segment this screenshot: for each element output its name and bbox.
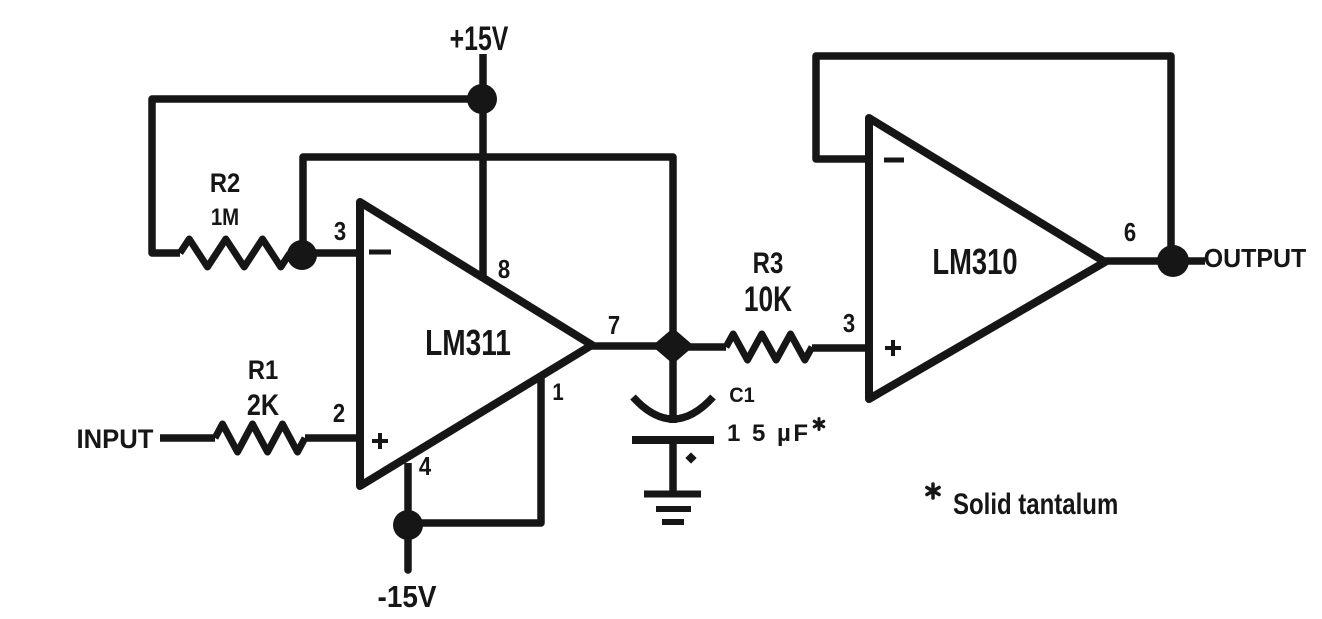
svg-text:LM311: LM311 <box>425 323 511 363</box>
op-amp U1 LM311 <box>360 202 592 486</box>
node output junction <box>1157 245 1189 277</box>
svg-text:1M: 1M <box>211 203 239 230</box>
svg-text:+15V: +15V <box>450 20 509 58</box>
wire top feedback loop (R2 left leg) <box>152 99 482 253</box>
svg-text:10K: 10K <box>744 279 793 319</box>
svg-text:C1: C1 <box>729 384 754 408</box>
wire inner feedback loop (output to pin 3) <box>303 157 673 346</box>
svg-text:7: 7 <box>608 311 620 340</box>
svg-text:INPUT: INPUT <box>77 423 154 454</box>
resistor R3 <box>726 334 812 360</box>
wire +15V stub <box>479 54 487 99</box>
svg-text:3: 3 <box>843 309 855 338</box>
svg-text:6: 6 <box>1124 218 1136 247</box>
wire input lead <box>160 434 215 442</box>
svg-text:R2: R2 <box>210 169 240 199</box>
U2 inverting input mark <box>884 158 904 163</box>
asterisk after value <box>818 419 821 430</box>
ground <box>644 491 701 498</box>
node R2 / pin 3 junction <box>287 240 317 270</box>
capacitor C1 curved plate <box>633 397 713 419</box>
wire U2 feedback loop <box>816 56 1171 261</box>
node U1 output junction <box>652 328 694 364</box>
wire pin 8 from +15V <box>479 99 487 277</box>
wire capacitor lead top <box>669 346 677 423</box>
wire U1 output <box>592 342 672 350</box>
wire pin 1 strap <box>408 376 541 523</box>
svg-text:2: 2 <box>333 399 345 428</box>
U2 non-inverting input mark <box>885 346 901 350</box>
resistor R2 <box>180 239 290 267</box>
svg-text:8: 8 <box>498 255 510 284</box>
wire U2 output <box>1105 257 1173 265</box>
op-amp U2 LM310 <box>869 118 1105 399</box>
U1 inverting input mark <box>369 250 391 255</box>
node pin4 junction <box>393 510 423 540</box>
resistor R1 <box>215 424 305 452</box>
wire output stub <box>1173 257 1205 265</box>
wire pin 4 <box>404 463 412 525</box>
svg-text:1 5 µF: 1 5 µF <box>727 420 811 447</box>
svg-text:R1: R1 <box>248 356 278 386</box>
svg-text:1: 1 <box>552 378 563 405</box>
capacitor C1 polarity mark <box>685 452 696 463</box>
svg-text:2K: 2K <box>247 388 279 422</box>
U1 non-inverting input mark <box>372 439 388 443</box>
svg-text:R3: R3 <box>753 245 784 279</box>
wire capacitor lead bottom <box>669 440 677 492</box>
wire R3 to pin 3 <box>812 344 869 352</box>
wire -15V stub <box>404 525 412 570</box>
svg-text:OUTPUT: OUTPUT <box>1204 245 1307 274</box>
node +15V junction <box>467 84 497 114</box>
svg-text:LM310: LM310 <box>932 241 1017 282</box>
capacitor C1 flat plate <box>632 436 714 444</box>
wire to pin 3 <box>302 249 359 257</box>
svg-text:3: 3 <box>334 217 346 246</box>
wire R3 left stub <box>673 343 726 351</box>
svg-text:Solid tantalum: Solid tantalum <box>953 486 1118 520</box>
footnote asterisk <box>931 484 935 498</box>
svg-text:-15V: -15V <box>378 580 437 615</box>
wire R1 to pin 2 <box>305 434 359 442</box>
svg-text:4: 4 <box>419 452 432 481</box>
